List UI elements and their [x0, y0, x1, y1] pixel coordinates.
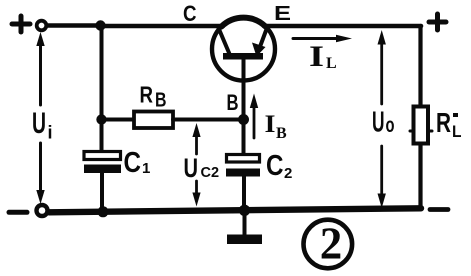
node ground junction (bottom bus / C2 / ground stub) — [239, 205, 250, 216]
svg-text:B: B — [155, 90, 167, 112]
label IL — [309, 40, 337, 73]
wire: resistor RB to base node — [173, 118, 244, 122]
svg-text:U: U — [372, 107, 385, 139]
svg-text:R: R — [436, 107, 451, 138]
svg-text:R: R — [140, 82, 154, 108]
wire: RB node to resistor RB — [102, 118, 135, 122]
label RL' — [436, 107, 462, 141]
wire: left branch RB node down to C1 — [100, 120, 104, 153]
transistor base lead down — [242, 58, 246, 120]
svg-text:L: L — [326, 55, 337, 72]
label RB — [140, 82, 167, 112]
label UC2 — [184, 153, 220, 183]
node A (junction top wire / left branch) — [95, 20, 105, 30]
svg-text:o: o — [386, 114, 395, 137]
current arrow IB (pointing up into base) — [253, 104, 256, 138]
wire: C1 bottom plate to bottom bus — [100, 173, 104, 212]
svg-text:C: C — [266, 150, 284, 182]
plus sign (top-left input polarity) — [12, 16, 30, 32]
svg-text:C: C — [124, 147, 142, 179]
wire: base node down to C2 — [242, 120, 246, 156]
wire: left branch (node A down to RB node) — [100, 26, 104, 120]
input terminal top (open circle) — [37, 21, 47, 31]
label C2 — [266, 150, 292, 182]
wire: top bus node A to transistor collector crossing — [101, 24, 224, 29]
wire: C2 bottom to bottom bus — [242, 176, 246, 211]
current arrow IL (load current, pointing right) — [293, 37, 338, 40]
voltage arrow U0 (output, arrows outward) — [380, 36, 383, 200]
wire: top terminal to node A — [47, 23, 100, 28]
capacitor C2 (electrolytic: hollow top plate, solid bottom plate) — [227, 155, 260, 163]
transistor collector lead (to top wire, left) — [219, 28, 230, 54]
svg-text:E: E — [274, 3, 291, 25]
svg-text:2: 2 — [320, 219, 343, 269]
voltage arrow Ui (dimension line with outward arrows) — [39, 40, 42, 196]
node (junction bottom bus / C1 branch) — [98, 206, 109, 217]
wire: load resistor to bottom-right corner — [418, 143, 422, 209]
svg-text:i: i — [48, 123, 53, 143]
minus sign (bottom-right output polarity) — [430, 207, 448, 212]
svg-text:1: 1 — [142, 160, 150, 177]
wire: bottom bus — [49, 208, 421, 212]
transistor Q1 (PNP, circle envelope) — [212, 18, 275, 81]
svg-text:C: C — [183, 1, 197, 26]
minus sign (bottom-left input polarity) — [9, 210, 27, 215]
node base (junction base lead / RB wire / C2) — [238, 114, 249, 125]
wire: ground stub — [243, 210, 247, 236]
svg-text:U: U — [32, 107, 46, 140]
plus sign (top-right output polarity) — [429, 14, 446, 30]
ground (chassis bar) — [227, 235, 262, 245]
svg-text:B: B — [227, 90, 239, 115]
transistor base bar — [223, 53, 263, 60]
wire: transistor emitter crossing to top-right corner — [264, 24, 421, 29]
svg-text:I: I — [309, 40, 324, 73]
label U0 — [372, 107, 395, 139]
svg-text:2: 2 — [284, 165, 292, 182]
svg-text:I: I — [265, 111, 276, 138]
svg-text:U: U — [184, 153, 199, 183]
resistor RL' (vertical box, load) — [414, 107, 429, 144]
wire: right rail down to load resistor — [418, 26, 422, 107]
label C1 — [124, 147, 151, 179]
svg-text:C2: C2 — [201, 165, 220, 181]
capacitor C1 (electrolytic: hollow top plate, solid bottom plate) — [84, 152, 121, 160]
svg-text:L: L — [452, 122, 462, 141]
transistor emitter lead with arrow (to top wire, right) — [260, 27, 268, 49]
voltage arrow UC2 (across C2, arrows outward) — [195, 130, 198, 199]
node B1 (junction left branch / RB wire) — [96, 114, 106, 124]
figure number badge (circled 2) — [304, 220, 353, 269]
label IB — [265, 111, 288, 142]
resistor RB (horizontal box) — [134, 112, 173, 129]
svg-text:B: B — [276, 125, 287, 142]
label Ui — [32, 107, 53, 143]
input terminal bottom (open circle) — [37, 205, 48, 216]
